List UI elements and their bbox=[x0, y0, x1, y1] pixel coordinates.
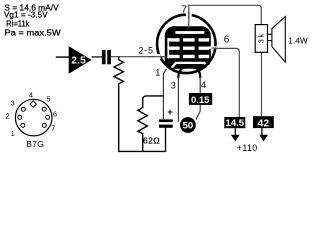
svg-text:3 k: 3 k bbox=[259, 33, 266, 43]
svg-text:3: 3 bbox=[171, 80, 176, 90]
svg-text:0.15: 0.15 bbox=[191, 95, 210, 106]
svg-text:1: 1 bbox=[155, 67, 160, 77]
svg-text:2.5: 2.5 bbox=[71, 55, 86, 66]
svg-text:6: 6 bbox=[53, 109, 57, 118]
svg-text:+110: +110 bbox=[237, 143, 258, 153]
svg-text:62Ω: 62Ω bbox=[143, 136, 160, 146]
svg-text:4: 4 bbox=[201, 80, 206, 90]
svg-text:14.5: 14.5 bbox=[226, 118, 245, 129]
svg-text:7: 7 bbox=[181, 3, 187, 15]
svg-text:+: + bbox=[167, 107, 173, 118]
svg-text:4: 4 bbox=[29, 91, 33, 100]
svg-text:50: 50 bbox=[183, 121, 194, 132]
svg-text:2-5: 2-5 bbox=[138, 46, 153, 56]
svg-text:6: 6 bbox=[224, 34, 230, 45]
svg-text:Pa = max.5W: Pa = max.5W bbox=[4, 29, 61, 38]
svg-text:7: 7 bbox=[51, 123, 55, 132]
svg-text:1.4W: 1.4W bbox=[288, 35, 308, 45]
svg-text:Ri=11k: Ri=11k bbox=[6, 20, 30, 29]
svg-text:1: 1 bbox=[11, 129, 15, 138]
svg-text:5: 5 bbox=[47, 94, 51, 103]
svg-text:2: 2 bbox=[6, 112, 10, 121]
svg-text:3: 3 bbox=[11, 98, 15, 107]
svg-text:42: 42 bbox=[258, 118, 270, 130]
svg-text:Vg1 = -3.5V: Vg1 = -3.5V bbox=[4, 11, 48, 20]
svg-text:B7G: B7G bbox=[26, 139, 44, 149]
